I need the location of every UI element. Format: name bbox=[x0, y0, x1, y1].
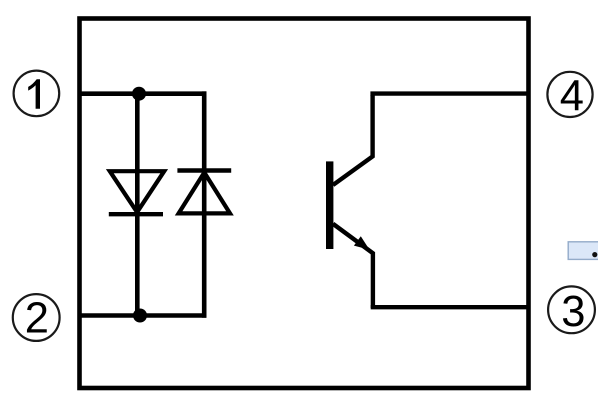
transistor Q1 base bar bbox=[326, 161, 333, 249]
wire pin4 bbox=[370, 91, 530, 95]
transistor Q1 collector lead bbox=[333, 95, 373, 185]
diode D2 triangle (cathode up) bbox=[179, 173, 230, 214]
wire right LED rail bbox=[202, 91, 207, 317]
diode D2 cathode bar bbox=[177, 168, 231, 172]
LED D1 cathode bar bbox=[109, 212, 163, 216]
highlight box fragment bbox=[568, 242, 598, 260]
junction bottom bbox=[133, 309, 147, 323]
wire left LED rail bbox=[135, 94, 140, 316]
package outline bbox=[80, 19, 529, 389]
cursor dot fragment bbox=[592, 252, 597, 257]
wire pin3 bbox=[371, 305, 530, 309]
transistor Q1 emitter arrow bbox=[354, 236, 370, 250]
pin 1 circle bbox=[14, 71, 60, 117]
transistor Q1 emitter lead bbox=[333, 224, 373, 308]
svg-text:2: 2 bbox=[25, 295, 49, 343]
junction top bbox=[132, 87, 146, 101]
svg-text:4: 4 bbox=[560, 73, 584, 121]
wire pin1 top rail bbox=[78, 91, 206, 96]
pin 3 circle bbox=[548, 286, 595, 336]
svg-text:3: 3 bbox=[561, 288, 585, 336]
LED D1 triangle (cathode down) bbox=[110, 171, 164, 212]
pin 2 circle bbox=[13, 294, 60, 342]
wire pin2 bottom rail bbox=[78, 313, 206, 318]
pin 4 circle bbox=[547, 72, 592, 121]
